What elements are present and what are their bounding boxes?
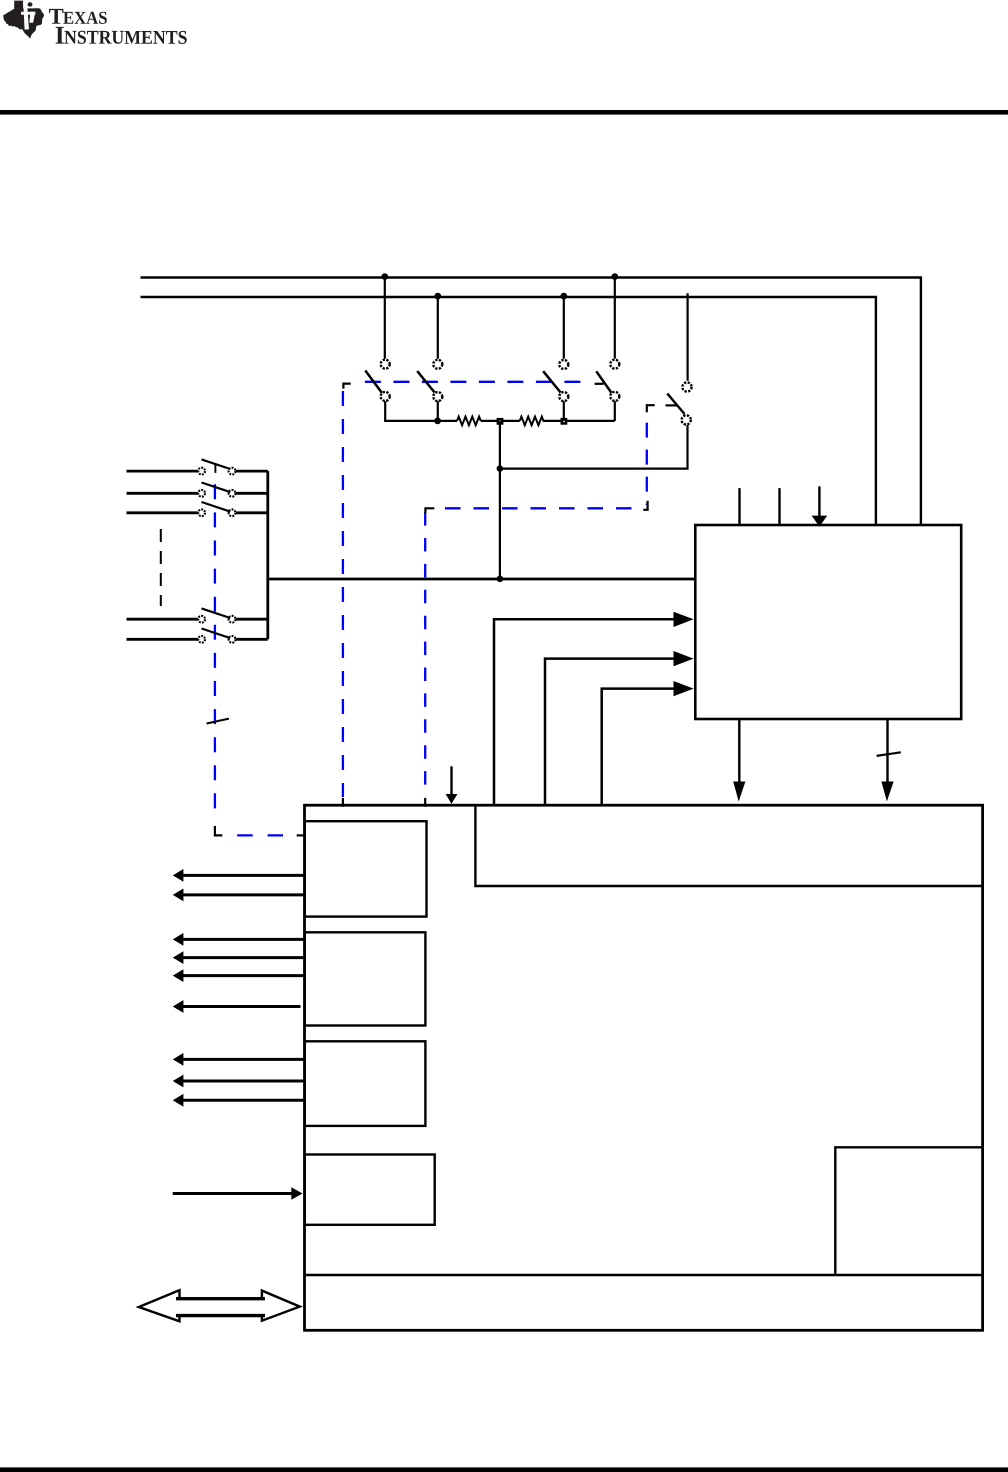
svg-text:EXAS: EXAS — [63, 8, 108, 28]
junction dot at S2 bottom — [434, 418, 441, 425]
switch S5 — [666, 293, 692, 424]
control dashed lines (blue) drawn under switches — [215, 382, 647, 836]
black corner control y508 left end — [425, 508, 434, 513]
row 5 switch — [127, 629, 268, 643]
svg-text:NSTRUMENTS: NSTRUMENTS — [64, 28, 188, 49]
arrow into U1 left pin 2 — [494, 612, 694, 806]
U1 bottom pin 1 arrow down — [733, 719, 745, 802]
box 2 — [305, 932, 426, 1025]
row 2 switch — [127, 483, 268, 497]
wire center tap down — [499, 421, 501, 579]
black corner control y508 right end — [643, 501, 647, 510]
resistor R1 — [457, 417, 481, 426]
output arrow 1b — [173, 889, 304, 902]
internal bus line — [305, 1274, 983, 1276]
output arrow 3a — [173, 1053, 304, 1066]
bottom-right internal box — [835, 1147, 981, 1275]
input arrow into box 4 — [173, 1187, 303, 1200]
output arrow 2b — [173, 951, 304, 964]
header rule — [0, 110, 1008, 115]
analog input line to block — [268, 578, 696, 581]
dashed control line to switch S4 (horizontal) — [365, 381, 592, 383]
junction on bus 1 at S1 — [381, 273, 388, 280]
black end dash at frame left edge — [297, 834, 304, 836]
control block U1 — [695, 525, 961, 719]
row 1 switch — [127, 459, 268, 474]
dashed control line vertical x=425 — [424, 512, 426, 790]
U1 top pin 2 — [778, 488, 780, 525]
white i stem — [29, 12, 35, 23]
arrow down into frame — [446, 766, 458, 804]
white t stem — [23, 1, 29, 29]
wire resistor R2 to S4 — [543, 420, 615, 422]
output arrow 1a — [173, 869, 304, 882]
output arrow 2a — [173, 933, 304, 946]
collector bus vertical — [266, 471, 269, 639]
bus VCC line 1 — [141, 278, 921, 526]
dashed control line horizontal into big box — [237, 834, 283, 836]
wide internal block left+bottom edges — [475, 807, 981, 887]
node junction (square) center tap — [497, 418, 504, 425]
dashed control line vertical x=215 (left switch bank) — [214, 484, 216, 818]
black i dot — [28, 2, 33, 6]
bus VCC line 2 — [141, 297, 876, 525]
black end dash at frame x=425 — [424, 798, 426, 807]
white notch top-right of panhandle — [23, 0, 34, 8]
arrow into U1 left pin 4 — [602, 681, 694, 806]
black end dash at frame x=343 — [342, 798, 344, 807]
output arrow 2c — [173, 969, 304, 982]
switch S4 — [595, 278, 620, 421]
output arrow 3c — [173, 1094, 304, 1107]
box 4 — [305, 1155, 435, 1225]
junction on bus 2 at S2 — [434, 293, 441, 300]
arrow into U1 left pin 3 — [545, 651, 694, 806]
TI logo Texas-state mark — [3, 0, 44, 39]
wire S5 bottom to node — [500, 425, 688, 469]
U1 top pin 3 arrow — [812, 486, 828, 526]
switch S2 — [417, 297, 442, 421]
box 1 — [305, 821, 427, 916]
junction (square) at S3 bottom — [561, 418, 568, 425]
U1 top pin 1 — [738, 488, 740, 525]
output arrow 2d — [173, 1000, 301, 1013]
main frame (bottom module) — [305, 805, 983, 1330]
ellipsis dashes (more switches) — [160, 529, 162, 606]
row 4 switch — [127, 608, 268, 622]
switch S1 — [365, 278, 457, 421]
dashed control line vertical x=343 — [342, 391, 344, 797]
bidirectional bus arrow — [139, 1290, 300, 1321]
wire between resistors — [481, 420, 520, 422]
junction dot — [497, 465, 504, 472]
resistor R2 — [520, 417, 544, 426]
dashed control line vertical x=647 — [646, 423, 648, 505]
TI logo wordmark TEXAS — [49, 4, 188, 50]
junction on bus 1 at S4 — [611, 273, 618, 280]
footer rule — [0, 1467, 1008, 1472]
black corner of left-bank control line — [215, 826, 222, 835]
white t crossbar — [21, 12, 35, 15]
junction dot on analog line — [497, 576, 504, 583]
box 3 — [305, 1041, 426, 1126]
row 3 switch — [127, 502, 268, 516]
junction on bus 2 at S3 — [560, 293, 567, 300]
dashed control line horizontal y=508 — [445, 507, 634, 509]
switch S3 — [543, 297, 568, 421]
output arrow 3b — [173, 1075, 304, 1088]
left switch bank — [127, 459, 268, 642]
U1 bottom pin 2 arrow down with bus slash — [877, 719, 901, 802]
black corner of S5 control line — [647, 405, 655, 412]
black corner of S4 control line — [343, 384, 350, 389]
slash on left-bank control line — [207, 719, 229, 724]
